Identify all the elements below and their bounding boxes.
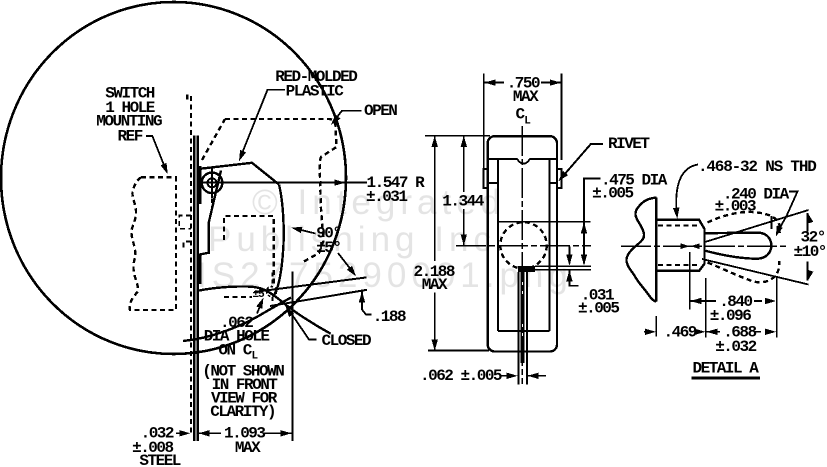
svg-text:±10°: ±10° bbox=[794, 243, 826, 261]
boot flange face line bbox=[655, 198, 657, 302]
+/-5 deg leader arrowhead bbox=[347, 266, 356, 277]
svg-text:CLARITY): CLARITY) bbox=[210, 403, 275, 421]
32 deg dimension bbox=[807, 213, 809, 232]
svg-text:STEEL: STEEL bbox=[139, 452, 180, 467]
.031 dimension bbox=[568, 247, 570, 264]
.688 +/-.032 dimension bbox=[706, 329, 717, 335]
pivot vertical centerline bbox=[211, 168, 213, 199]
32 deg cone upper line bbox=[705, 210, 809, 242]
.032 arrowhead bbox=[179, 430, 190, 436]
steel panel rear face line bbox=[196, 136, 198, 441]
svg-text:±.031: ±.031 bbox=[366, 188, 407, 206]
slot extension line upper bbox=[535, 265, 591, 267]
steel panel front face line bbox=[193, 136, 195, 441]
svg-text:1.344: 1.344 bbox=[442, 193, 484, 211]
+/-5 deg leader line bbox=[338, 253, 353, 272]
.475 DIA dimension bbox=[584, 178, 600, 263]
REF leader arrowhead bbox=[161, 163, 168, 174]
svg-text:.468-32 NS THD: .468-32 NS THD bbox=[698, 158, 816, 176]
circle top extension line bbox=[498, 221, 590, 223]
.840 +/-.096 dimension bbox=[690, 298, 701, 304]
svg-text:±.005: ±.005 bbox=[592, 185, 633, 203]
bat lever (center position) bbox=[706, 233, 772, 259]
steel panel hidden line (dashed) bbox=[187, 96, 191, 434]
.468 leader line bbox=[676, 165, 698, 215]
closed bat lower silhouette curve bbox=[183, 298, 291, 342]
toggle lever left profile bbox=[200, 171, 221, 285]
.032 arrow line bbox=[176, 432, 183, 434]
CLOSED leader line bbox=[288, 309, 316, 339]
boot seal wavy outline bbox=[626, 198, 656, 302]
panel lower dash mark bbox=[184, 242, 191, 249]
32 deg cone lower line bbox=[702, 259, 809, 285]
90 deg leader line bbox=[294, 228, 316, 233]
svg-text:CLOSED: CLOSED bbox=[322, 332, 372, 350]
enlarged-view boundary circle (1.547 R) bbox=[1, 2, 346, 354]
1.547 R arrowhead bbox=[334, 179, 345, 185]
watermark line 1 bbox=[252, 183, 505, 223]
rivet slot bbox=[518, 266, 535, 272]
svg-text:MAX: MAX bbox=[235, 439, 261, 457]
lever OPEN bat base (dashed rectangle) bbox=[224, 216, 274, 297]
terminal inner left bbox=[520, 272, 522, 363]
bushing end extension line bbox=[705, 278, 707, 338]
REF leader line bbox=[146, 136, 166, 170]
toggle lever right edge curve bbox=[275, 185, 284, 295]
detail A centerline bbox=[621, 245, 789, 247]
top extension line bbox=[425, 135, 490, 137]
1.344 dimension bbox=[461, 136, 467, 147]
2.188 MAX dimension bbox=[432, 136, 438, 147]
bat lever thrown up (dashed) bbox=[708, 212, 781, 233]
.062 dia hole (dashed) bbox=[267, 287, 277, 297]
watermark line 3 bbox=[197, 256, 573, 296]
.468 leader arrowhead bbox=[673, 208, 679, 219]
lever OPEN position outline (dashed) bbox=[202, 119, 337, 262]
.240 leader arrowhead bbox=[776, 225, 783, 236]
.062 hole centerline (dashed) bbox=[272, 273, 274, 305]
right mounting ear bbox=[557, 169, 561, 188]
svg-text:±5°: ±5° bbox=[253, 289, 270, 301]
.469 dimension bbox=[644, 331, 647, 333]
terminal inner right bbox=[523, 272, 525, 363]
90 deg leader arrowhead bbox=[291, 227, 302, 233]
svg-text:REF: REF bbox=[118, 127, 143, 145]
OPEN leader line bbox=[334, 111, 362, 122]
svg-text:DETAIL A: DETAIL A bbox=[693, 360, 760, 378]
RIVET leader line bbox=[564, 144, 604, 176]
1.547 R leader line bbox=[198, 182, 367, 184]
watermark line 2 bbox=[208, 220, 511, 260]
.062 leader arrowhead bbox=[256, 298, 263, 309]
pivot center marks bbox=[681, 243, 690, 249]
svg-text:±5°: ±5° bbox=[316, 239, 340, 257]
slot extension line lower bbox=[518, 269, 591, 271]
CLOSED leader arrowhead bbox=[286, 306, 295, 317]
.750 MAX dimension bbox=[483, 74, 485, 170]
bat tip tick bbox=[771, 216, 773, 229]
.240 leader line bbox=[778, 192, 798, 232]
svg-text:L: L bbox=[524, 116, 531, 128]
threaded bushing outline bbox=[656, 220, 704, 271]
svg-text:PLASTIC: PLASTIC bbox=[286, 83, 345, 101]
toggle lever bottom curve bbox=[198, 286, 331, 333]
svg-text:OPEN: OPEN bbox=[364, 102, 397, 120]
svg-text:RIVET: RIVET bbox=[608, 135, 650, 153]
flange face extension line bbox=[655, 316, 657, 337]
bat actuator lower line (closed) bbox=[270, 290, 367, 306]
front view case outline bbox=[488, 136, 557, 351]
thread hidden lines (dashed) bbox=[658, 226, 699, 265]
bottom extension line bbox=[428, 350, 489, 352]
toggle pivot hole bbox=[202, 173, 223, 194]
pivot extension line bbox=[689, 252, 691, 310]
pivot centerline dashed below bbox=[211, 199, 213, 213]
bat tip extension line bbox=[776, 276, 778, 338]
left mounting ear bbox=[483, 169, 487, 188]
toggle lever top edge bbox=[198, 163, 279, 185]
rivet line right bbox=[550, 182, 557, 184]
lever tip extension line bbox=[291, 272, 293, 441]
terminal outer right bbox=[526, 272, 528, 385]
svg-text:.188: .188 bbox=[373, 308, 406, 326]
panel hole notch (section) bbox=[179, 216, 191, 229]
.062 leader line bbox=[257, 302, 262, 314]
svg-text:±.005: ±.005 bbox=[578, 299, 619, 317]
PLASTIC leader line bbox=[241, 90, 285, 157]
bat lever thrown down (dashed) bbox=[708, 261, 780, 282]
.188 dimension arrow bbox=[359, 291, 365, 302]
1.093 MAX dimension bbox=[199, 430, 210, 436]
bat actuator upper line (closed) bbox=[254, 277, 367, 292]
RIVET leader arrowhead bbox=[558, 171, 568, 181]
toggle lever bushing face bbox=[199, 166, 201, 204]
front view inner outline bbox=[489, 159, 556, 331]
bushing hole (dashed circle .475 DIA) bbox=[500, 222, 546, 268]
svg-text:MAX: MAX bbox=[422, 276, 448, 294]
PLASTIC leader arrowhead bbox=[239, 150, 246, 161]
OPEN leader arrowhead bbox=[331, 115, 341, 126]
svg-text:.469: .469 bbox=[664, 323, 697, 341]
switch 1-hole mounting ref outline (dashed) bbox=[130, 177, 176, 310]
svg-text:.062 ±.005: .062 ±.005 bbox=[420, 367, 502, 385]
horizontal centerline bbox=[456, 245, 591, 247]
terminal outer left bbox=[517, 272, 519, 385]
svg-text:±.003: ±.003 bbox=[715, 198, 756, 216]
svg-text:ON C: ON C bbox=[218, 342, 252, 360]
vertical centerline CL bbox=[521, 126, 523, 384]
rivet line left bbox=[489, 182, 498, 184]
toggle pivot hole inner bbox=[208, 178, 217, 187]
svg-text:MAX: MAX bbox=[513, 88, 539, 106]
svg-text:L: L bbox=[252, 351, 259, 363]
svg-text:±.032: ±.032 bbox=[715, 338, 756, 356]
